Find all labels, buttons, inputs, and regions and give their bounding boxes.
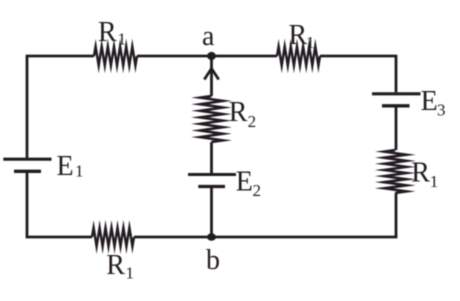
node b junction dot [207,233,216,241]
node a junction dot [207,52,216,60]
resistor R1 top-left [94,46,137,65]
wire middle between E2 and node b [210,188,213,237]
wire right side lower vertical [395,193,398,238]
resistor R2 middle [200,96,223,142]
wire right side between E3 and R1 [395,107,398,150]
svg-text:3: 3 [437,100,446,119]
label E1 [57,151,84,182]
svg-text:E: E [421,86,438,117]
svg-text:E: E [236,167,253,198]
label E3 [421,86,446,119]
battery E2 [188,175,236,187]
arrow current direction at node a [204,69,218,80]
wire bottom-left horizontal [26,236,92,239]
wire middle branch upper vertical [210,56,213,96]
svg-text:R: R [289,20,308,51]
svg-text:2: 2 [253,181,262,200]
svg-text:1: 1 [126,263,135,282]
wire left side lower vertical [26,173,29,239]
resistor R1 bottom [92,228,134,247]
svg-text:b: b [206,245,220,276]
svg-text:1: 1 [118,30,127,49]
svg-text:R: R [98,17,117,48]
label R1 right side [411,157,438,191]
wire right side upper vertical [395,55,398,93]
label E2 [236,167,261,200]
wire middle between R2 and E2 [210,142,213,173]
svg-text:R: R [411,157,430,188]
label R1 bottom [106,250,134,282]
label R1 top-right [289,20,315,52]
wire top-middle horizontal [137,55,277,58]
label R2 middle [229,97,256,131]
wire top-right horizontal to corner [320,55,396,58]
svg-text:a: a [202,21,215,52]
svg-text:E: E [57,151,74,182]
svg-text:1: 1 [306,33,315,52]
wire left side upper vertical [26,55,29,158]
label R1 top-left [98,17,126,49]
resistor R1 top-right [277,46,320,65]
wire bottom-right horizontal [134,236,397,239]
svg-text:1: 1 [430,172,439,191]
svg-text:R: R [106,250,125,281]
battery E1 [3,159,51,171]
resistor R1 right side [384,150,406,193]
svg-text:R: R [229,97,248,128]
svg-text:2: 2 [248,112,257,131]
battery E3 [372,94,421,106]
wire top-left horizontal [27,55,94,58]
svg-text:1: 1 [75,162,84,181]
